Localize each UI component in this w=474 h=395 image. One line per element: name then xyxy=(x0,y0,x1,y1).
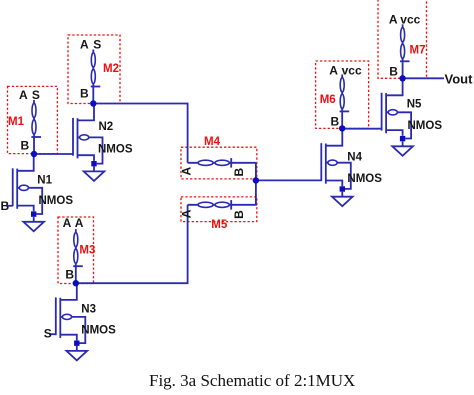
svg-text:NMOS: NMOS xyxy=(81,325,116,337)
svg-text:B: B xyxy=(21,139,30,153)
svg-text:B: B xyxy=(232,210,246,219)
svg-text:N1: N1 xyxy=(37,175,52,187)
svg-text:S: S xyxy=(32,88,40,102)
svg-text:M7: M7 xyxy=(410,45,426,57)
svg-text:N4: N4 xyxy=(347,152,362,164)
svg-text:NMOS: NMOS xyxy=(347,173,382,185)
svg-text:B: B xyxy=(1,199,10,213)
svg-text:NMOS: NMOS xyxy=(98,143,133,155)
svg-text:NMOS: NMOS xyxy=(408,120,443,132)
svg-text:A: A xyxy=(180,167,194,176)
svg-text:N2: N2 xyxy=(99,121,114,133)
svg-text:vcc: vcc xyxy=(342,63,362,77)
svg-text:M5: M5 xyxy=(211,219,228,231)
svg-text:A: A xyxy=(63,216,72,230)
svg-text:N3: N3 xyxy=(81,304,96,316)
svg-text:Vout: Vout xyxy=(445,72,474,87)
svg-text:M4: M4 xyxy=(204,136,221,148)
svg-text:B: B xyxy=(232,168,246,177)
svg-text:N5: N5 xyxy=(407,99,422,111)
svg-text:A: A xyxy=(329,63,338,77)
svg-text:A: A xyxy=(75,216,84,230)
svg-text:M2: M2 xyxy=(103,63,119,75)
svg-text:A: A xyxy=(19,88,28,102)
svg-text:S: S xyxy=(93,37,101,51)
svg-text:B: B xyxy=(80,86,89,100)
svg-text:M3: M3 xyxy=(79,245,95,257)
svg-text:Fig. 3a Schematic of 2:1MUX: Fig. 3a Schematic of 2:1MUX xyxy=(149,371,355,390)
svg-text:vcc: vcc xyxy=(400,13,420,27)
svg-text:M1: M1 xyxy=(8,116,25,128)
svg-text:M6: M6 xyxy=(320,94,336,106)
svg-text:B: B xyxy=(331,114,340,128)
svg-text:B: B xyxy=(65,267,74,281)
svg-text:A: A xyxy=(389,13,398,27)
svg-text:NMOS: NMOS xyxy=(39,195,74,207)
svg-text:A: A xyxy=(180,209,194,218)
svg-text:A: A xyxy=(80,37,89,51)
svg-text:B: B xyxy=(389,64,398,78)
svg-text:S: S xyxy=(44,326,52,340)
